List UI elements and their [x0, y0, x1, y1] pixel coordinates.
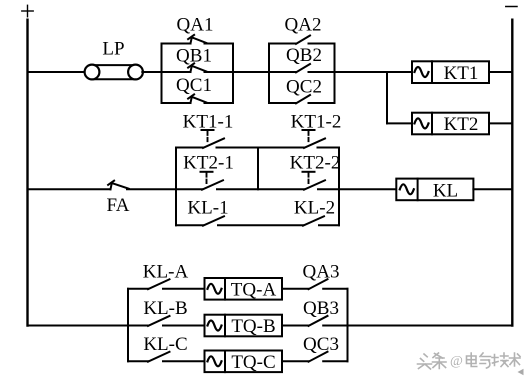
plus terminal of DC supply — [22, 5, 33, 16]
svg-text:KL-C: KL-C — [143, 334, 187, 355]
relay contact KL-2 — [303, 216, 339, 225]
svg-text:QB3: QB3 — [303, 298, 339, 319]
wire KT1 to right bus — [489, 71, 512, 73]
delayed contact KT1-2 — [303, 130, 340, 148]
contact QB3 — [309, 316, 348, 326]
svg-text:KL-A: KL-A — [143, 262, 189, 283]
svg-text:QC2: QC2 — [286, 77, 322, 98]
wire QA1 group left tie bar — [161, 44, 163, 104]
wire QA1 group right tie bar — [232, 44, 234, 104]
wire TQ-A to contact QA3 — [282, 288, 309, 290]
svg-text:QB2: QB2 — [286, 45, 322, 66]
wire left bus bottom feed — [28, 325, 129, 327]
label TQ-C — [231, 352, 275, 373]
delayed contact KT2-1 — [176, 172, 304, 190]
label TQ-B — [231, 316, 275, 337]
label KT2-1 — [183, 153, 234, 174]
delayed contact KT1-1 — [176, 130, 304, 148]
svg-text:KT2-1: KT2-1 — [183, 153, 234, 174]
label QA1 — [177, 15, 214, 36]
svg-text:QA2: QA2 — [285, 15, 322, 36]
disconnector contact FA — [108, 181, 176, 190]
label QC2 — [286, 77, 322, 98]
label KL-C — [143, 334, 187, 355]
wire KL to right bus — [473, 188, 512, 190]
wire TQ-C to contact QC3 — [282, 360, 309, 362]
wire left bus to contact FA — [28, 188, 111, 190]
label KL — [433, 181, 458, 202]
label KT2 — [444, 114, 479, 135]
label QB1 — [176, 46, 212, 67]
wire contact block middle divider — [257, 148, 259, 190]
svg-text:TQ-B: TQ-B — [231, 316, 275, 337]
label KT1-1 — [183, 112, 234, 133]
svg-text:KT2: KT2 — [444, 114, 479, 135]
svg-text:QA3: QA3 — [303, 262, 340, 283]
wire QA1 group to QA2 group — [233, 71, 269, 73]
wire KT2 to right bus — [489, 122, 512, 124]
wire QA2 group left tie bar — [268, 44, 270, 104]
svg-text:FA: FA — [107, 195, 130, 216]
svg-text:KL-B: KL-B — [143, 298, 187, 319]
contact QA2 — [269, 36, 335, 44]
watermark arrow — [518, 369, 524, 375]
svg-text:TQ-C: TQ-C — [231, 352, 275, 373]
relay contact KL-B — [128, 316, 205, 326]
label QC1 — [176, 75, 212, 96]
time relay coil KT2 — [412, 113, 489, 135]
label KL-1 — [187, 198, 228, 219]
wire contact block to relay KL — [339, 188, 396, 190]
svg-text:LP: LP — [102, 39, 124, 60]
watermark 头条@电气技术 — [418, 353, 521, 369]
minus terminal of DC supply — [506, 6, 517, 8]
svg-text:KL-2: KL-2 — [294, 198, 335, 219]
svg-text:KT1-1: KT1-1 — [183, 112, 234, 133]
trip coil TQ-C — [205, 351, 283, 373]
contact QC3 — [309, 352, 348, 362]
wire QA2 group right tie bar — [334, 44, 336, 104]
contact QA3 — [309, 279, 348, 289]
relay contact KL-1 — [176, 216, 303, 225]
svg-text:KL: KL — [433, 181, 458, 202]
svg-text:QC1: QC1 — [176, 75, 212, 96]
label QA2 — [285, 15, 322, 36]
svg-text:KT1-2: KT1-2 — [291, 112, 342, 133]
wire junction drop to relay KT2 — [387, 72, 412, 123]
label QC3 — [303, 334, 339, 355]
disconnector contact QC1 — [162, 94, 234, 103]
wire TQ-B to contact QB3 — [282, 325, 309, 327]
wire contact block right tie bar — [338, 148, 340, 226]
label FA — [107, 195, 130, 216]
label KL-2 — [294, 198, 335, 219]
label LP — [102, 39, 124, 60]
trip coil TQ-A — [205, 278, 283, 300]
label QA3 — [303, 262, 340, 283]
right bus wire (-) — [511, 20, 513, 326]
time relay coil KT1 — [412, 61, 489, 83]
label KL-B — [143, 298, 187, 319]
label KT1-2 — [291, 112, 342, 133]
svg-text:KL-1: KL-1 — [187, 198, 228, 219]
label TQ-A — [231, 279, 277, 300]
svg-text:TQ-A: TQ-A — [231, 279, 277, 300]
svg-text:QA1: QA1 — [177, 15, 214, 36]
label KT2-2 — [290, 153, 341, 174]
wire bottom right tie bar — [347, 289, 349, 362]
svg-text:KT2-2: KT2-2 — [290, 153, 341, 174]
relay contact KL-C — [128, 352, 205, 362]
svg-text:QB1: QB1 — [176, 46, 212, 67]
label KL-A — [143, 262, 189, 283]
relay coil KL — [396, 179, 473, 201]
svg-text:@: @ — [450, 354, 463, 369]
label QB2 — [286, 45, 322, 66]
disconnector contact QA1 — [162, 35, 234, 44]
wire bottom left tie bar — [127, 289, 129, 362]
svg-text:KT1: KT1 — [444, 63, 479, 84]
wire contact block left tie bar — [175, 148, 177, 226]
relay contact KL-A — [128, 279, 205, 289]
wire left bus to fuse LP — [28, 71, 86, 73]
label KT1 — [444, 63, 479, 84]
wire QA2 group to relay KT1 — [335, 71, 413, 73]
fuse LP — [85, 65, 143, 80]
wire fuse LP to QA1 switch group — [142, 71, 161, 73]
delayed contact KT2-2 — [303, 172, 340, 190]
trip coil TQ-B — [205, 315, 283, 337]
left bus wire (+) — [26, 20, 28, 326]
contact QB2 — [269, 64, 335, 72]
svg-text:QC3: QC3 — [303, 334, 339, 355]
disconnector contact QB1 — [162, 63, 234, 72]
label QB3 — [303, 298, 339, 319]
wire bottom right link to right bus — [348, 325, 513, 327]
contact QC2 — [269, 95, 335, 103]
